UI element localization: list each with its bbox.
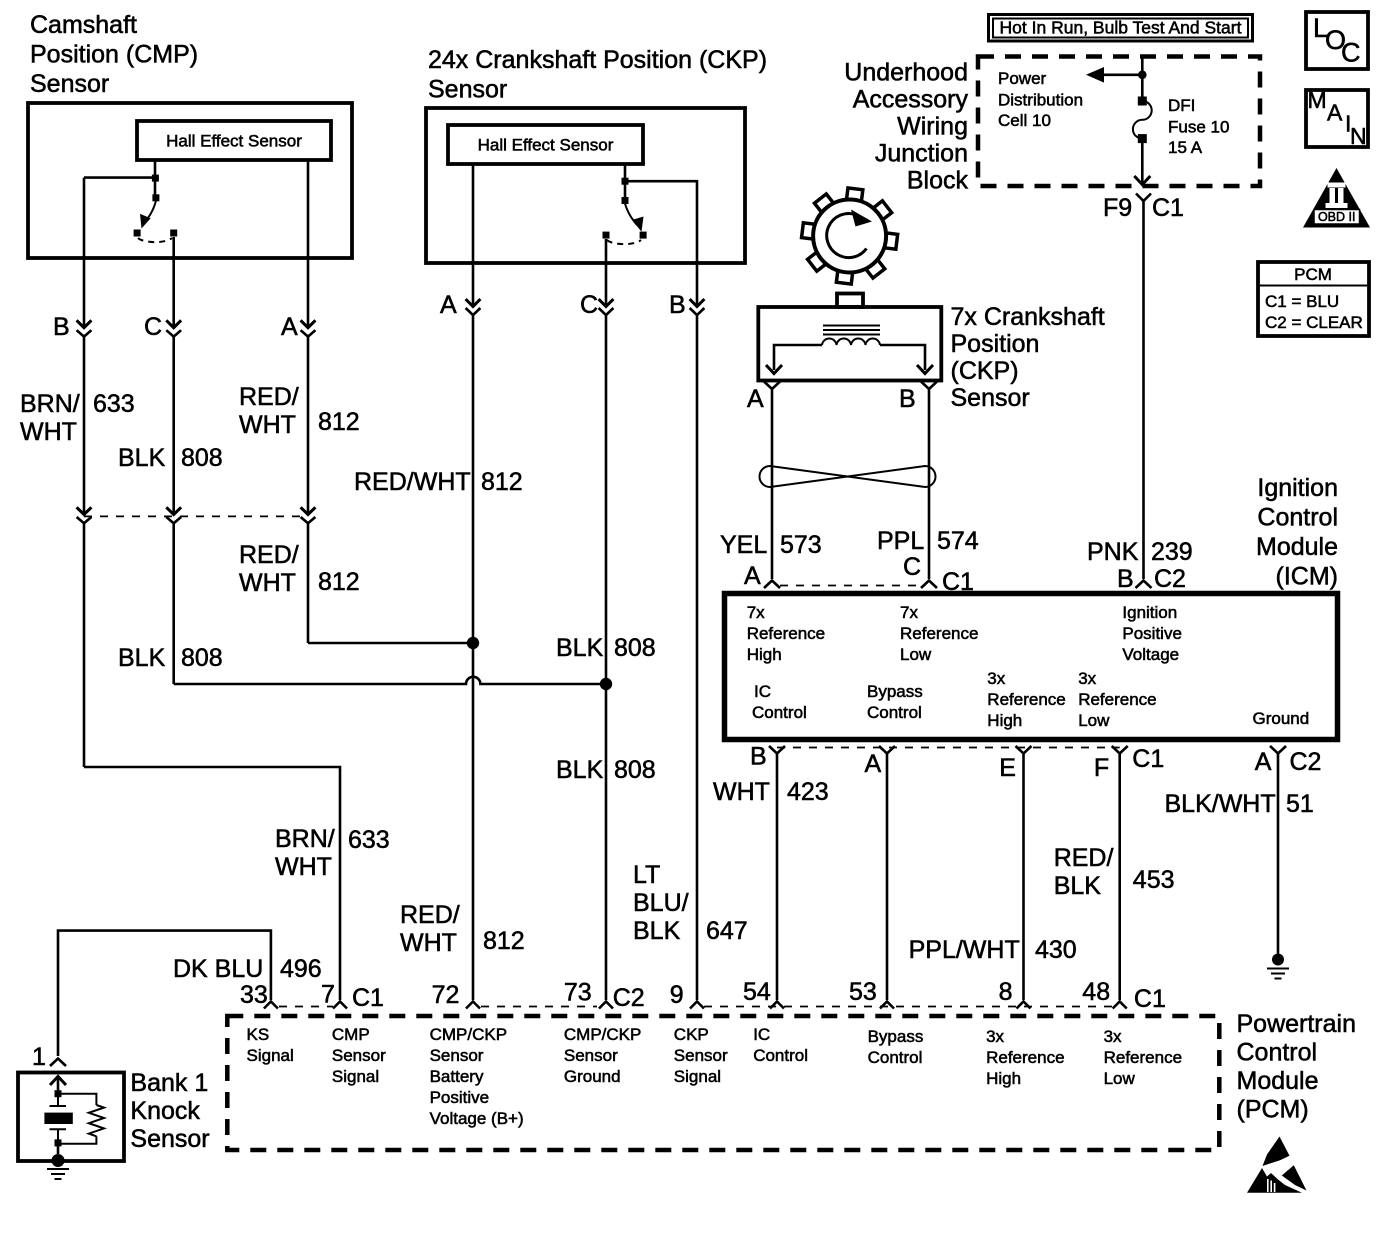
svg-text:YEL: YEL <box>720 531 767 559</box>
PCM thin dashed pin lines <box>279 1006 333 1008</box>
svg-text:High: High <box>987 711 1022 730</box>
connector F9 C1 <box>1103 194 1184 223</box>
svg-text:808: 808 <box>614 756 656 784</box>
PCM pin 7 C1 connector <box>321 981 384 1013</box>
node square pivot1 (CMP switch) <box>152 175 159 182</box>
svg-text:IC: IC <box>754 682 771 701</box>
wire PNK 239 <box>1142 201 1145 579</box>
svg-text:73: 73 <box>564 979 592 1007</box>
svg-text:BLK/WHT: BLK/WHT <box>1165 790 1276 818</box>
sensor box CMP <box>28 103 352 258</box>
svg-text:Positive: Positive <box>1122 624 1182 643</box>
svg-text:CMP: CMP <box>332 1025 370 1044</box>
svg-text:808: 808 <box>181 444 223 472</box>
wire DK BLU 496 run <box>58 931 271 1056</box>
svg-text:IC: IC <box>753 1025 770 1044</box>
Hall Effect Sensor box (24x) <box>448 125 643 164</box>
svg-text:24x Crankshaft Position (CKP): 24x Crankshaft Position (CKP) <box>428 46 767 74</box>
svg-text:Sensor: Sensor <box>30 70 109 98</box>
svg-text:Underhood: Underhood <box>844 59 968 87</box>
knock sensor internal arrow up <box>50 1077 66 1086</box>
svg-text:WHT: WHT <box>20 418 77 446</box>
svg-text:PNK: PNK <box>1087 538 1139 566</box>
node square contact right (CMP) <box>170 230 177 237</box>
junction dot RED/WHT <box>467 637 479 649</box>
svg-text:Sensor: Sensor <box>674 1046 728 1065</box>
wire coil right to B <box>880 345 925 370</box>
svg-text:C1: C1 <box>1132 745 1164 773</box>
piezo element bottom plate <box>50 1128 67 1130</box>
wire coil left to A <box>774 345 822 370</box>
svg-text:Power: Power <box>998 69 1047 88</box>
wire C vertical (24x, BLK 808) <box>605 239 608 306</box>
junction dot BLK <box>600 678 612 690</box>
svg-text:430: 430 <box>1035 936 1077 964</box>
PCM pin 72 connector <box>432 981 480 1009</box>
arrowhead coil B <box>917 365 933 374</box>
svg-text:C1 = BLU: C1 = BLU <box>1265 292 1339 311</box>
svg-text:DK BLU: DK BLU <box>173 955 263 983</box>
svg-text:7: 7 <box>321 981 335 1009</box>
svg-text:Cell 10: Cell 10 <box>998 111 1051 130</box>
PCM dashed box <box>227 1016 1219 1150</box>
node square contact left (CMP) <box>134 230 141 237</box>
svg-text:72: 72 <box>432 981 460 1009</box>
svg-text:PPL/WHT: PPL/WHT <box>909 936 1020 964</box>
arrowhead down at block edge <box>1134 176 1150 185</box>
junction block dashed box <box>978 57 1260 187</box>
svg-text:Fuse 10: Fuse 10 <box>1168 118 1229 137</box>
label Hot In Run box <box>989 15 1253 42</box>
node square pivot2 (CMP switch) <box>152 194 159 201</box>
wire BLK/WHT 51 (ICM A to ground) <box>1277 754 1280 955</box>
svg-text:C2: C2 <box>1154 565 1186 593</box>
PCM pin 48 C1 connector <box>1082 978 1166 1013</box>
fuse F10 top terminal <box>1138 97 1147 106</box>
svg-text:BRN/: BRN/ <box>275 825 335 853</box>
dashed throw arc (24x switch) <box>607 240 641 244</box>
svg-text:Hall Effect Sensor: Hall Effect Sensor <box>478 136 614 155</box>
svg-text:BRN/: BRN/ <box>20 390 80 418</box>
svg-text:9: 9 <box>670 981 684 1009</box>
svg-text:CMP/CKP: CMP/CKP <box>430 1025 507 1044</box>
svg-text:A: A <box>747 385 764 413</box>
svg-text:LT: LT <box>633 861 660 889</box>
svg-text:Battery: Battery <box>430 1067 484 1086</box>
wire A vertical (24x, RED/WHT 812) <box>472 164 475 306</box>
ICM bottom pin A connector <box>865 746 896 778</box>
svg-text:BLK: BLK <box>556 634 604 662</box>
wire PPL 574 (7x B to ICM) <box>928 389 931 579</box>
ICM bottom dashed connector line <box>777 747 1120 749</box>
svg-text:Wiring: Wiring <box>897 113 968 141</box>
svg-text:Module: Module <box>1237 1067 1319 1095</box>
inline connector arrows B <box>77 507 92 523</box>
svg-text:3x: 3x <box>987 669 1005 688</box>
knock sensor internal wire top <box>57 1078 60 1094</box>
svg-text:15 A: 15 A <box>1168 138 1203 157</box>
svg-text:N: N <box>1350 123 1367 149</box>
PCM pin 33 connector <box>240 981 278 1009</box>
wire hall output stem (24x) <box>624 164 627 198</box>
wire plate stem top <box>57 1097 59 1106</box>
svg-text:573: 573 <box>780 531 822 559</box>
svg-text:Reference: Reference <box>986 1048 1064 1067</box>
arrowhead coil A <box>766 365 782 374</box>
svg-text:574: 574 <box>937 527 979 555</box>
piezo element top plate <box>50 1105 67 1107</box>
svg-text:OBD II: OBD II <box>1318 210 1356 224</box>
svg-text:High: High <box>747 645 782 664</box>
wire plate stem bottom <box>57 1129 59 1140</box>
wire B horizontal (CMP) <box>84 176 155 179</box>
arrowhead to power distribution (left) <box>1086 67 1104 83</box>
svg-text:496: 496 <box>280 955 322 983</box>
svg-text:Low: Low <box>1078 711 1110 730</box>
svg-text:RED/: RED/ <box>400 901 460 929</box>
svg-text:812: 812 <box>318 568 360 596</box>
svg-text:A: A <box>281 313 298 341</box>
wire WHT 423 (ICM B to PCM 54) <box>776 754 779 1001</box>
svg-text:Control: Control <box>753 1046 808 1065</box>
svg-text:51: 51 <box>1286 790 1314 818</box>
svg-text:C1: C1 <box>1152 194 1184 222</box>
ICM top pin C connector <box>903 553 974 596</box>
svg-text:C: C <box>580 291 598 319</box>
svg-text:CKP: CKP <box>674 1025 709 1044</box>
svg-text:Bank 1: Bank 1 <box>130 1069 208 1097</box>
svg-text:C2 = CLEAR: C2 = CLEAR <box>1265 313 1363 332</box>
svg-text:Bypass: Bypass <box>868 1027 924 1046</box>
ICM bottom pin E connector <box>999 746 1031 782</box>
svg-text:BLU/: BLU/ <box>633 889 689 917</box>
svg-text:C2: C2 <box>613 984 645 1012</box>
svg-text:Position (CMP): Position (CMP) <box>30 41 198 69</box>
svg-text:Positive: Positive <box>430 1088 490 1107</box>
ICM bottom pin B connector <box>750 743 785 771</box>
wire C vertical (CMP, BLK 808) <box>172 237 175 327</box>
svg-text:BLK: BLK <box>1054 872 1102 900</box>
svg-text:423: 423 <box>787 778 829 806</box>
wire B horizontal (24x) <box>625 181 697 306</box>
svg-text:B: B <box>899 385 916 413</box>
wire B vertical (CMP, BRN/WHT 633) <box>83 178 86 327</box>
svg-text:453: 453 <box>1133 866 1175 894</box>
dashed throw arc (CMP switch) <box>138 238 172 242</box>
svg-text:Sensor: Sensor <box>130 1125 209 1153</box>
wire CMP-A join horizontal <box>308 642 473 645</box>
svg-text:808: 808 <box>181 644 223 672</box>
svg-text:33: 33 <box>240 981 268 1009</box>
svg-text:Ground: Ground <box>564 1067 621 1086</box>
svg-text:Voltage: Voltage <box>1122 645 1179 664</box>
svg-text:PPL: PPL <box>877 527 924 555</box>
junction dot (power feed) <box>1138 71 1147 80</box>
svg-text:7x: 7x <box>747 603 765 622</box>
PCM pin 54 connector <box>743 978 784 1009</box>
ESD sensitivity triangle icon <box>1247 1137 1307 1193</box>
pickup coil L (7x CKP) <box>822 339 880 345</box>
node square pivot2 (24x switch) <box>622 197 629 204</box>
knock sensor pin 1 connector <box>32 1043 66 1071</box>
svg-text:F: F <box>1094 754 1109 782</box>
legend PCM connector colors box <box>1258 262 1369 336</box>
svg-text:812: 812 <box>483 927 525 955</box>
svg-text:Signal: Signal <box>247 1046 294 1065</box>
svg-text:Bypass: Bypass <box>867 682 923 701</box>
ICM top dashed connector line <box>780 585 921 587</box>
fuse F10 bottom terminal <box>1138 134 1147 143</box>
svg-text:Low: Low <box>900 645 932 664</box>
svg-text:BLK: BLK <box>118 444 166 472</box>
wire fuse output <box>1141 139 1144 183</box>
svg-text:Control: Control <box>1237 1039 1318 1067</box>
svg-text:8: 8 <box>999 978 1013 1006</box>
switch blade arrowhead (24x) <box>632 217 644 232</box>
svg-text:Camshaft: Camshaft <box>30 11 137 39</box>
svg-text:7x Crankshaft: 7x Crankshaft <box>951 303 1105 331</box>
node square (knock bottom) <box>55 1139 62 1146</box>
svg-text:239: 239 <box>1151 538 1193 566</box>
ICM bottom pin A(C2) connector <box>1255 746 1322 776</box>
svg-text:A: A <box>744 562 761 590</box>
7x sensor box <box>758 307 941 381</box>
wire CMP-C join horizontal with bridge hump <box>174 677 605 684</box>
node square (knock top) <box>55 1090 62 1097</box>
PCM pin 8 connector <box>999 978 1031 1009</box>
svg-text:Control: Control <box>752 703 807 722</box>
svg-text:B: B <box>1117 565 1134 593</box>
svg-text:Sensor: Sensor <box>951 384 1030 412</box>
svg-text:CMP/CKP: CMP/CKP <box>564 1025 641 1044</box>
svg-text:B: B <box>669 291 686 319</box>
svg-text:3x: 3x <box>1104 1027 1122 1046</box>
svg-text:48: 48 <box>1082 978 1110 1006</box>
svg-text:Sensor: Sensor <box>332 1046 386 1065</box>
wire BRN/WHT lower run to PCM pin7 <box>84 767 340 1000</box>
pin A connector arrows (CMP) <box>281 313 315 341</box>
svg-text:Control: Control <box>867 703 922 722</box>
svg-text:Block: Block <box>907 167 969 195</box>
pin B connector (7x) <box>899 382 937 414</box>
svg-text:Sensor: Sensor <box>430 1046 484 1065</box>
svg-text:Accessory: Accessory <box>853 86 969 114</box>
ICM box <box>725 594 1338 740</box>
svg-text:E: E <box>999 754 1016 782</box>
svg-text:F9: F9 <box>1103 194 1132 222</box>
PCM pin 53 connector <box>849 978 894 1009</box>
node square contact left (24x) <box>603 232 610 239</box>
svg-text:A: A <box>440 291 457 319</box>
wire branch to power distribution <box>1100 74 1142 77</box>
svg-text:PCM: PCM <box>1294 265 1332 284</box>
inline connector dashed line <box>84 515 308 517</box>
Hall Effect Sensor box (CMP) <box>137 121 331 160</box>
svg-text:(ICM): (ICM) <box>1276 563 1338 591</box>
svg-text:WHT: WHT <box>400 929 457 957</box>
svg-text:Ignition: Ignition <box>1257 474 1338 502</box>
svg-text:Sensor: Sensor <box>564 1046 618 1065</box>
svg-text:Signal: Signal <box>674 1067 721 1086</box>
node square pivot1 (24x switch) <box>622 178 629 185</box>
svg-text:C: C <box>903 553 921 581</box>
svg-text:Hot In Run, Bulb Test And Star: Hot In Run, Bulb Test And Start <box>1000 18 1242 38</box>
fuse DFI Fuse 10 15 A body <box>1133 101 1152 139</box>
svg-text:1: 1 <box>32 1043 46 1071</box>
wire hall output stem (CMP) <box>154 160 157 195</box>
PCM pin 9 connector <box>670 981 704 1009</box>
pin A connector arrows (24x) <box>440 291 480 319</box>
ground symbol G101 <box>1267 954 1289 979</box>
svg-text:C1: C1 <box>352 984 384 1012</box>
pickup coil core lines <box>823 326 880 335</box>
svg-text:Reference: Reference <box>1078 690 1156 709</box>
svg-text:WHT: WHT <box>275 853 332 881</box>
svg-text:Control: Control <box>868 1048 923 1067</box>
svg-text:A: A <box>1327 100 1343 126</box>
knock sensor box <box>18 1073 124 1162</box>
svg-text:808: 808 <box>614 634 656 662</box>
svg-text:M: M <box>1308 87 1327 113</box>
svg-text:RED/: RED/ <box>239 541 299 569</box>
inline connector arrows A <box>301 507 316 523</box>
svg-text:KS: KS <box>247 1025 270 1044</box>
svg-text:Signal: Signal <box>332 1067 379 1086</box>
svg-text:Reference: Reference <box>900 624 978 643</box>
inline connector arrows C <box>166 507 181 523</box>
resistor R (knock) <box>89 1105 104 1136</box>
sensor box 24x CKP <box>426 108 745 263</box>
ICM bottom pin F connector <box>1094 745 1164 782</box>
svg-text:High: High <box>986 1069 1021 1088</box>
wire PPL/WHT 430 (ICM E to PCM 8) <box>1022 754 1025 1001</box>
wire bypass (ICM A to PCM 53) <box>886 754 889 1001</box>
icon LOC box <box>1306 12 1368 69</box>
svg-text:C: C <box>144 313 162 341</box>
svg-text:Powertrain: Powertrain <box>1237 1010 1357 1038</box>
svg-text:53: 53 <box>849 978 877 1006</box>
svg-text:633: 633 <box>93 390 135 418</box>
svg-text:BLK: BLK <box>556 756 604 784</box>
reluctor gear icon <box>802 188 898 284</box>
svg-text:WHT: WHT <box>239 569 296 597</box>
svg-text:Ignition: Ignition <box>1122 603 1177 622</box>
svg-text:RED/: RED/ <box>239 383 299 411</box>
wire A vertical (CMP, RED/WHT 812) <box>307 160 310 327</box>
svg-text:7x: 7x <box>900 603 918 622</box>
ground symbol (knock) <box>47 1169 69 1179</box>
wire feed from hot bus <box>1141 57 1144 102</box>
svg-text:WHT: WHT <box>713 778 770 806</box>
pin B connector arrows (24x) <box>669 291 704 319</box>
rotation arrow inside gear <box>827 214 867 258</box>
piezo element (filled) <box>44 1113 72 1124</box>
svg-text:633: 633 <box>348 826 390 854</box>
svg-text:DFI: DFI <box>1168 96 1195 115</box>
svg-text:Module: Module <box>1256 533 1338 561</box>
switch blade (CMP hall switch) <box>145 201 156 223</box>
svg-text:Low: Low <box>1104 1069 1136 1088</box>
svg-text:(CKP): (CKP) <box>951 357 1019 385</box>
svg-text:A: A <box>865 750 882 778</box>
svg-text:Voltage (B+): Voltage (B+) <box>430 1109 524 1128</box>
wire RED/BLK 453 (ICM F to PCM 48) <box>1118 754 1121 1001</box>
ICM top pin A connector <box>744 562 780 590</box>
svg-text:(PCM): (PCM) <box>1237 1096 1309 1124</box>
svg-text:3x: 3x <box>986 1027 1004 1046</box>
pin C connector arrows (24x) <box>580 291 613 319</box>
svg-text:A: A <box>1255 748 1272 776</box>
icon OBD II triangle <box>1303 168 1370 228</box>
svg-text:Sensor: Sensor <box>428 76 507 104</box>
svg-text:RED/: RED/ <box>1054 844 1114 872</box>
wire to ground (knock) <box>57 1146 60 1154</box>
svg-text:BLK: BLK <box>118 644 166 672</box>
svg-text:WHT: WHT <box>239 411 296 439</box>
ground dot (knock case) <box>52 1154 65 1167</box>
PCM pin 73 C2 connector <box>564 979 645 1013</box>
svg-text:Hall Effect Sensor: Hall Effect Sensor <box>166 132 302 151</box>
svg-text:Knock: Knock <box>130 1097 200 1125</box>
pin B connector arrows (CMP) <box>53 313 91 341</box>
svg-text:RED/WHT: RED/WHT <box>354 468 471 496</box>
svg-text:Reference: Reference <box>1104 1048 1182 1067</box>
ICM top pin B connector <box>1117 565 1186 593</box>
resistor branch wires <box>58 1094 96 1105</box>
svg-text:BLK: BLK <box>633 917 681 945</box>
svg-text:Distribution: Distribution <box>998 91 1083 110</box>
pin A connector (7x) <box>747 382 780 414</box>
switch blade (24x hall switch) <box>625 204 637 226</box>
node square contact right (24x) <box>640 232 647 239</box>
svg-text:B: B <box>53 313 70 341</box>
svg-text:Junction: Junction <box>875 140 968 168</box>
svg-text:Control: Control <box>1257 504 1338 532</box>
svg-text:C1: C1 <box>1134 985 1166 1013</box>
wire YEL 573 (7x A to ICM) <box>771 389 774 579</box>
twisted pair symbol <box>760 466 936 487</box>
svg-text:Ground: Ground <box>1253 709 1310 728</box>
svg-text:812: 812 <box>318 408 360 436</box>
svg-text:Position: Position <box>951 330 1040 358</box>
pin C connector arrows (CMP) <box>144 313 181 341</box>
svg-text:812: 812 <box>481 468 523 496</box>
svg-text:3x: 3x <box>1078 669 1096 688</box>
svg-text:Reference: Reference <box>987 690 1065 709</box>
svg-text:C: C <box>1341 38 1361 68</box>
7x sensor top notch <box>837 294 863 308</box>
svg-text:C2: C2 <box>1290 748 1322 776</box>
icon MAIN box <box>1306 87 1368 149</box>
svg-text:647: 647 <box>706 917 748 945</box>
svg-text:Reference: Reference <box>747 624 825 643</box>
svg-text:54: 54 <box>743 978 771 1006</box>
switch blade arrowhead (CMP) <box>140 214 151 229</box>
svg-text:B: B <box>750 743 767 771</box>
